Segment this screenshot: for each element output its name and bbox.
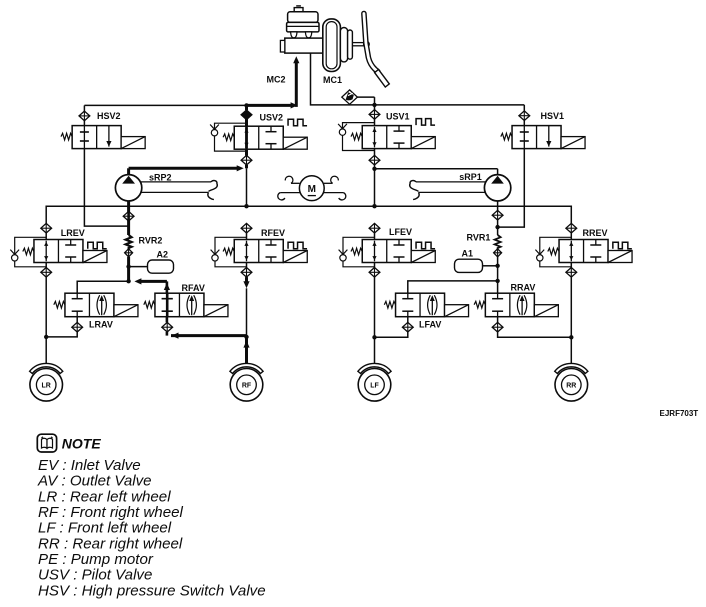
svg-text:NOTE: NOTE xyxy=(62,436,102,452)
wire USV2 line down to EV header xyxy=(246,168,248,206)
wire thick flow line to MC2 xyxy=(247,104,293,107)
check diamond RRAV bottom xyxy=(492,322,503,332)
wheel RF xyxy=(230,363,263,373)
valve HSV2 xyxy=(72,126,121,149)
motor coupling left xyxy=(291,182,300,184)
wheel LF xyxy=(358,363,391,373)
valve USV2 xyxy=(215,123,247,151)
node LF wheel line junction xyxy=(372,335,376,339)
node A2 junction xyxy=(126,264,130,268)
NOTE icon xyxy=(37,434,56,452)
wire HSV1 to pump suction xyxy=(498,149,525,228)
relief valve RVR1 seat xyxy=(494,249,502,257)
wire LFEV to LF wheel xyxy=(374,277,376,364)
check diamond RFEV bottom xyxy=(241,268,252,278)
node RR wheel line junction xyxy=(569,335,573,339)
svg-text:LF : Front left wheel: LF : Front left wheel xyxy=(38,520,172,537)
svg-text:USV2: USV2 xyxy=(260,113,284,123)
node A1 junction xyxy=(495,264,499,268)
svg-text:sRP2: sRP2 xyxy=(149,173,172,183)
valve HSV1 xyxy=(512,126,561,149)
wire main line to USV1 xyxy=(374,105,376,110)
damper sRP1 xyxy=(416,181,486,183)
svg-text:RRAV: RRAV xyxy=(511,283,536,293)
wire pressure switch to main line xyxy=(357,96,374,98)
valve RFAV xyxy=(155,293,204,317)
check diamond HSV2 top port xyxy=(79,111,90,121)
wire RFEV dump flow xyxy=(245,277,248,282)
valve LRAV xyxy=(65,293,114,317)
svg-text:RR : Rear right wheel: RR : Rear right wheel xyxy=(38,535,183,552)
wire LFAV to LF wheel line xyxy=(375,332,408,337)
wire sRP1 suction xyxy=(497,201,499,235)
reservoir tank xyxy=(288,12,318,23)
check diamond RREV top xyxy=(566,223,577,233)
node junction pressure-switch / USV1 xyxy=(372,103,376,107)
check diamond RFEV top xyxy=(241,223,252,233)
svg-text:RR: RR xyxy=(566,382,576,389)
svg-text:A1: A1 xyxy=(462,249,474,259)
wire main line MC2 circuit (thin part) xyxy=(84,104,246,106)
check diamond LFEV top xyxy=(369,223,380,233)
brake booster discs xyxy=(323,19,341,72)
pump sRP2 xyxy=(115,175,141,201)
check diamond LREV bottom xyxy=(41,268,52,278)
wire sRP2 discharge thick xyxy=(127,168,130,175)
svg-text:RFAV: RFAV xyxy=(182,283,205,293)
svg-text:M: M xyxy=(308,184,316,195)
svg-text:RFEV: RFEV xyxy=(261,228,285,238)
wire RVR2 to junction xyxy=(127,257,130,281)
relief valve RVR2 spring xyxy=(126,235,132,249)
wire RVR1 down to RRAV xyxy=(497,257,499,293)
wire RRAV to RR wheel line xyxy=(498,332,572,337)
svg-text:AV : Outlet Valve: AV : Outlet Valve xyxy=(37,473,152,490)
svg-text:USV1: USV1 xyxy=(386,112,410,122)
wire USV2 riser thick xyxy=(245,105,248,110)
svg-text:RVR1: RVR1 xyxy=(467,233,491,243)
valve LFEV xyxy=(343,237,375,266)
brake pedal pad xyxy=(375,70,390,88)
wire main line to HSV1 xyxy=(523,105,525,111)
pump motor M xyxy=(299,176,324,201)
check diamond USV1 top port xyxy=(369,110,380,120)
svg-text:LFEV: LFEV xyxy=(389,227,412,237)
push rod xyxy=(352,42,364,44)
svg-text:RREV: RREV xyxy=(583,228,608,238)
svg-text:MC2: MC2 xyxy=(267,75,286,85)
check diamond LRAV bottom xyxy=(72,322,83,332)
master cylinder body MC xyxy=(285,38,323,53)
valve RRAV xyxy=(485,293,534,317)
valve LREV xyxy=(15,237,47,266)
wire RF wheel riser thick xyxy=(245,337,248,364)
check diamond USV2 bottom port xyxy=(241,155,252,165)
motor coupling right xyxy=(324,182,333,184)
pump sRP1 xyxy=(484,175,510,201)
wire USV1 line down to EV header xyxy=(374,165,376,206)
accumulator A1 xyxy=(455,259,483,272)
accumulator A2 xyxy=(148,260,174,273)
svg-text:RF : Front right wheel: RF : Front right wheel xyxy=(38,504,183,521)
svg-text:LRAV: LRAV xyxy=(89,319,113,329)
wire main line to HSV2 xyxy=(83,105,85,111)
wire EV header line xyxy=(46,206,571,223)
relief valve RVR1 spring xyxy=(495,235,501,249)
check diamond sRP2 suction xyxy=(123,211,134,221)
valve RREV xyxy=(540,237,572,266)
wire junction to LFAV xyxy=(408,281,498,293)
node LR wheel line junction xyxy=(44,335,48,339)
wire RF wheel to RFAV thick xyxy=(171,334,247,337)
reservoir outlet ports xyxy=(291,32,297,38)
check diamond LFAV bottom xyxy=(402,322,413,332)
check diamond LFEV bottom xyxy=(369,268,380,278)
wire LREV to LR wheel xyxy=(45,277,47,364)
wheel RR xyxy=(555,363,588,373)
svg-text:sRP1: sRP1 xyxy=(459,172,482,182)
wire junction to LRAV xyxy=(77,281,128,293)
svg-text:HSV2: HSV2 xyxy=(97,111,121,121)
wire sRP1 discharge xyxy=(497,169,499,175)
wire A2 to suction line xyxy=(129,266,148,268)
damper sRP2 xyxy=(141,181,211,183)
svg-text:MC1: MC1 xyxy=(323,75,342,85)
svg-text:LREV: LREV xyxy=(61,228,85,238)
svg-text:LFAV: LFAV xyxy=(419,319,441,329)
node HSV1 junction xyxy=(495,225,499,229)
wheel LR xyxy=(30,363,63,373)
reservoir cap xyxy=(294,8,303,12)
wire USV2 bottom to diamond xyxy=(245,149,248,155)
node header/USV2 xyxy=(244,204,248,208)
svg-text:RF: RF xyxy=(242,382,252,389)
svg-text:LR: LR xyxy=(42,382,51,389)
check diamond RREV bottom xyxy=(566,268,577,278)
wire MC1 circuit down + right main line xyxy=(311,53,525,105)
wire RFAV dump flow thick xyxy=(140,280,167,283)
svg-text:EV : Inlet Valve: EV : Inlet Valve xyxy=(38,457,141,474)
node sRP1 discharge junction xyxy=(372,167,376,171)
wire sRP2 suction thick xyxy=(127,201,130,235)
valve USV1 xyxy=(343,123,375,151)
check diamond LREV top xyxy=(41,223,52,233)
svg-text:HSV1: HSV1 xyxy=(541,111,565,121)
node RF wheel line junction xyxy=(244,335,248,339)
svg-text:EJRF703T: EJRF703T xyxy=(660,409,699,418)
check diamond RFAV bottom xyxy=(162,322,173,332)
check diamond sRP1 suction xyxy=(492,210,503,220)
check diamond HSV1 top port xyxy=(519,111,530,121)
svg-text:RVR2: RVR2 xyxy=(139,236,163,246)
brake pedal arm xyxy=(364,14,378,72)
relief valve RVR2 seat xyxy=(125,249,133,257)
wire HSV2 to pump suction xyxy=(84,149,128,227)
svg-text:LF: LF xyxy=(370,382,379,389)
valve RFEV xyxy=(215,237,247,266)
wire RREV to RR wheel xyxy=(570,277,572,364)
svg-text:A2: A2 xyxy=(157,250,169,260)
svg-text:USV : Pilot Valve: USV : Pilot Valve xyxy=(38,567,152,584)
wire A1 to suction line xyxy=(483,265,498,267)
valve LFAV xyxy=(396,293,445,317)
pressure switch PSW xyxy=(342,90,358,104)
node right dump junction xyxy=(495,279,499,283)
node left dump junction xyxy=(126,279,130,283)
node header/USV1 xyxy=(372,204,376,208)
wire LRAV to LR wheel line xyxy=(46,332,77,337)
check diamond USV1 bottom port xyxy=(369,155,380,165)
svg-text:PE : Pump motor: PE : Pump motor xyxy=(38,551,154,568)
wire thick riser to master cylinder MC2 port xyxy=(295,63,298,107)
svg-text:HSV : High pressure Switch Val: HSV : High pressure Switch Valve xyxy=(38,582,266,599)
junction diamond USV2 top (filled) xyxy=(241,110,252,120)
svg-text:LR : Rear left wheel: LR : Rear left wheel xyxy=(38,488,171,505)
node junction USV2 / main line xyxy=(244,103,248,107)
